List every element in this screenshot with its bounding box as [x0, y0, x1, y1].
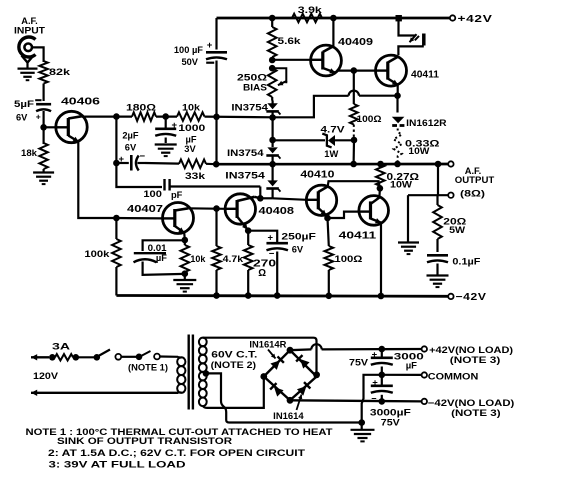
node 40411u emitter junction — [394, 92, 401, 99]
node 100k junction — [113, 215, 120, 222]
svg-text:+: + — [372, 349, 378, 360]
wire 40410 emitter to 40411 base — [328, 212, 360, 218]
terminal -42V no load — [422, 399, 427, 404]
wire emitter bus y96 — [273, 91, 398, 118]
node 40409 base junction — [269, 57, 276, 64]
svg-text:10W: 10W — [408, 146, 429, 156]
svg-text:33k: 33k — [185, 171, 206, 181]
svg-text:IN3754: IN3754 — [231, 102, 269, 112]
capacitor 2uF 6V — [116, 155, 145, 171]
switch contact — [115, 354, 121, 360]
label 0.01uF — [148, 243, 168, 263]
label IN3754 no2 — [227, 148, 265, 158]
resistor 20R 5W — [433, 195, 442, 252]
svg-text:40409: 40409 — [338, 37, 374, 48]
transistor Q8 40411 lower — [359, 196, 389, 226]
wire output bus — [216, 163, 450, 166]
svg-text:IN1614: IN1614 — [273, 411, 304, 421]
node fuse left — [49, 354, 56, 361]
label IN1612R — [406, 118, 447, 128]
wire collector node to 40410 base — [273, 198, 307, 200]
node rail 250uF — [274, 292, 281, 299]
transistor Q7 40410 — [306, 185, 336, 215]
node rail junction cutout — [396, 15, 402, 21]
svg-text:BIAS: BIAS — [243, 83, 267, 93]
switch lever — [98, 350, 111, 357]
svg-text:180Ω: 180Ω — [126, 103, 157, 113]
wire -42V rail — [116, 294, 448, 298]
resistor 270R — [244, 231, 253, 296]
capacitor C10 3000uF 75V lower — [371, 375, 393, 404]
resistor 100k — [112, 218, 121, 296]
svg-text:1000: 1000 — [178, 123, 205, 133]
node bus 0.33 junction — [394, 161, 401, 168]
svg-text:(NOTE 1): (NOTE 1) — [128, 362, 168, 372]
label 3.9k — [298, 5, 323, 15]
wire AC line2 — [31, 390, 178, 396]
capacitor 0.01uF loop — [134, 240, 185, 275]
label 60V CT — [211, 350, 257, 360]
node rail junction 3.9k — [330, 15, 337, 22]
label 0.1uF — [452, 257, 480, 267]
transistor Q5 40407 — [163, 203, 194, 234]
terminal +42V — [450, 15, 455, 20]
node 2uF junction — [113, 160, 120, 167]
label 120V — [33, 371, 59, 382]
transistor Q6 40408 — [225, 194, 255, 230]
svg-text:100: 100 — [143, 189, 162, 199]
diode bridge IN1614R top-left — [270, 356, 283, 369]
label 100R lower — [334, 254, 363, 264]
label 3000uF lower — [370, 407, 411, 418]
label -42V — [456, 292, 487, 303]
node zener right junction — [351, 137, 358, 144]
svg-text:60V C.T.: 60V C.T. — [211, 350, 257, 360]
svg-text:3V: 3V — [184, 144, 196, 154]
resistor 18k — [39, 143, 47, 169]
wire 33k to bus — [206, 163, 216, 166]
wire 18k top — [42, 127, 44, 144]
wire collector 40406 to 180R — [82, 115, 132, 117]
svg-text:4.7V: 4.7V — [321, 124, 346, 134]
wire output link — [437, 164, 439, 195]
wire base 40406 — [44, 126, 56, 128]
svg-text:82k: 82k — [49, 67, 71, 78]
label 18k — [21, 148, 38, 158]
capacitor 1000uF 3V — [155, 117, 177, 143]
svg-text:+: + — [172, 120, 178, 131]
wire x116 down — [115, 117, 117, 163]
connector J1 phono input jack — [19, 37, 36, 62]
resistor 180R — [132, 112, 156, 121]
resistor 82k — [39, 61, 47, 84]
resistor 0.33R 10W dotted — [394, 129, 402, 165]
ground below 10k — [173, 274, 196, 292]
ground below 18k — [33, 169, 54, 184]
terminal AF output return — [448, 193, 453, 198]
label 4.7V — [321, 124, 346, 134]
node bus diode junction — [269, 161, 276, 168]
label 3A — [52, 342, 70, 353]
label 75V upper — [349, 357, 369, 368]
wire 40407 collector to 40408 base — [188, 207, 225, 210]
label 100pF — [143, 189, 182, 200]
svg-text:µF: µF — [406, 360, 417, 371]
svg-text:+42V(NO LOAD): +42V(NO LOAD) — [429, 345, 513, 355]
wire 40409 collector up — [332, 18, 334, 46]
node bridge left — [260, 373, 267, 380]
ground speaker — [398, 243, 419, 255]
label IN1614R — [249, 339, 287, 349]
diode bridge bottom-left — [270, 383, 283, 396]
node bridge bottom — [287, 397, 294, 404]
diode bridge IN1614 bottom-right — [297, 382, 310, 395]
svg-text:+42V: +42V — [458, 14, 493, 25]
svg-text:100Ω: 100Ω — [334, 254, 363, 264]
svg-text:2: AT 1.5A D.C.; 62V C.T. FOR: 2: AT 1.5A D.C.; 62V C.T. FOR OPEN CIRCU… — [48, 448, 305, 458]
svg-text:+: + — [36, 112, 41, 122]
svg-text:(NOTE 3): (NOTE 3) — [451, 408, 501, 418]
node cap2 bottom — [379, 398, 386, 405]
note line 4 — [49, 459, 187, 469]
label 20R 5W — [443, 216, 467, 235]
svg-text:µF: µF — [156, 253, 167, 263]
ground power supply — [351, 423, 375, 442]
svg-text:(8Ω): (8Ω) — [460, 189, 485, 199]
label 250uF — [281, 231, 316, 254]
node feedback junction 1 — [113, 113, 120, 120]
resistor 100R upper — [350, 71, 358, 139]
wire common — [382, 374, 422, 376]
label 10W a — [408, 146, 429, 156]
wire 82k to C-5uF — [42, 84, 44, 102]
svg-text:18k: 18k — [21, 148, 38, 158]
node 4.7k top junction — [213, 205, 220, 212]
svg-text:IN1614R: IN1614R — [249, 339, 287, 349]
svg-text:100Ω: 100Ω — [357, 114, 383, 124]
node 0.01 top junction — [182, 237, 189, 244]
svg-text:5µF: 5µF — [14, 99, 34, 109]
label 5.6k — [278, 36, 302, 46]
node common junction — [379, 372, 386, 379]
label 1000uF — [178, 123, 205, 154]
label 40406 — [61, 97, 101, 108]
wire bridge minus — [290, 400, 422, 401]
svg-text:IN3754: IN3754 — [227, 148, 265, 158]
wire fuse to switch — [76, 356, 97, 358]
node cap1 top — [379, 346, 386, 353]
wire 40408 emitter to 250uF — [248, 231, 277, 242]
wire speaker ground — [407, 195, 409, 242]
wire x116 to 100pF — [116, 163, 162, 187]
transformer T1 primary coil — [177, 357, 185, 393]
node CT ground junction — [358, 419, 365, 426]
svg-text:IN1612R: IN1612R — [406, 118, 447, 128]
label COMMON — [428, 371, 479, 381]
diode IN1612R — [392, 96, 405, 126]
svg-text:+: + — [207, 40, 213, 51]
zener 4.7V 1W — [273, 134, 354, 148]
svg-text:40408: 40408 — [259, 206, 295, 217]
capacitor 100uF 50V — [206, 18, 227, 163]
node bus 0.27 junction — [377, 161, 384, 168]
capacitor 250uF 6V — [266, 233, 288, 296]
label 40407 — [127, 204, 163, 215]
wire output return — [408, 194, 448, 196]
node bus 100R junction — [350, 161, 357, 168]
svg-text:5.6k: 5.6k — [278, 36, 302, 46]
node rail 270R — [245, 292, 252, 299]
note line 2 — [57, 436, 232, 446]
node rail junction 5.6k — [269, 15, 276, 22]
wire 40407 base — [116, 217, 162, 220]
label -42V no load — [428, 398, 515, 408]
node cutout left — [136, 354, 143, 361]
svg-text:−: − — [269, 248, 275, 259]
svg-text:INPUT: INPUT — [14, 26, 45, 36]
label 270R — [253, 259, 276, 280]
svg-text:pF: pF — [171, 190, 183, 200]
label IN1614 — [273, 411, 304, 421]
label 10W b — [390, 179, 412, 189]
label 40411 lower — [339, 230, 377, 241]
svg-text:50V: 50V — [181, 57, 198, 67]
svg-text:2µF: 2µF — [122, 130, 139, 140]
resistor 10k vertical — [181, 240, 190, 272]
ground below 0.1uF — [427, 276, 449, 288]
arrow IN1614R — [268, 350, 276, 359]
note line 3 — [48, 448, 305, 458]
svg-text:250Ω: 250Ω — [237, 73, 268, 83]
wire switch to cutout — [121, 356, 136, 358]
wire secondary top to bridge — [203, 338, 317, 375]
label NOTE3 a — [450, 355, 501, 365]
svg-text:0.01: 0.01 — [148, 243, 167, 253]
node A.F. INPUT label — [14, 16, 45, 36]
label 10k horizontal — [182, 103, 201, 113]
svg-text:40406: 40406 — [61, 97, 101, 108]
node emitter-100R junction — [351, 67, 358, 74]
svg-text:IN3754: IN3754 — [225, 170, 266, 180]
svg-text:40411: 40411 — [411, 70, 440, 81]
node bus output-link junction — [435, 161, 442, 168]
wire 10k to bootstrap node — [205, 115, 273, 118]
resistor 10k horizontal — [177, 112, 205, 121]
svg-text:µF: µF — [186, 135, 197, 145]
svg-text:4.7k: 4.7k — [223, 254, 244, 264]
node rail 100R — [326, 293, 333, 300]
node bootstrap junction — [213, 114, 220, 121]
svg-text:3.9k: 3.9k — [298, 5, 323, 15]
svg-text:COMMON: COMMON — [428, 371, 479, 381]
node 40408 collector junction — [257, 195, 264, 202]
svg-text:5W: 5W — [449, 225, 465, 235]
arrow IN1614 — [297, 395, 303, 411]
label 100k — [84, 249, 110, 259]
svg-text:10k: 10k — [190, 254, 206, 264]
wire 40409 emitter to 40411 base — [337, 69, 376, 71]
terminal AF output hot — [448, 161, 453, 166]
wire AC line1 left — [31, 354, 49, 360]
resistor 4.7k — [212, 209, 221, 296]
svg-text:6V: 6V — [16, 113, 28, 123]
terminal -42V — [448, 294, 453, 299]
node bridge top — [287, 347, 294, 354]
svg-text:75V: 75V — [381, 417, 401, 428]
svg-text:40411: 40411 — [339, 230, 377, 241]
svg-text:40410: 40410 — [300, 170, 334, 181]
rectifier bridge wiring — [264, 350, 317, 400]
svg-text:OUTPUT: OUTPUT — [455, 175, 495, 185]
diode D2 IN3754 — [266, 140, 280, 164]
svg-text:−42V(NO LOAD): −42V(NO LOAD) — [428, 398, 515, 408]
label 82k — [49, 67, 71, 78]
label 75V lower — [381, 417, 401, 428]
svg-text:40407: 40407 — [127, 204, 163, 215]
wire 100R to bus — [353, 140, 356, 164]
thermal cutout switch — [398, 18, 423, 55]
transistor Q3 40409 — [311, 45, 342, 76]
transistor Q4 40411 upper — [375, 55, 406, 86]
node rail 4.7k — [213, 292, 220, 299]
wire 100pF down to collector node — [259, 187, 261, 199]
label +42V no load — [429, 345, 513, 355]
fuse 3A — [55, 354, 73, 360]
capacitor 5uF 6V — [14, 99, 51, 123]
node fuse right — [73, 354, 80, 361]
wire 180R to 10k — [156, 115, 177, 117]
wire jack to 82k — [32, 47, 44, 62]
svg-text:+: + — [268, 233, 274, 244]
wire 40406 emitter down — [78, 142, 116, 219]
label NOTE3 b — [451, 408, 501, 418]
wire bridge plus — [290, 344, 422, 350]
transformer T1 secondary coil — [199, 338, 207, 406]
wire 40410 collector to 40411 collector — [371, 188, 380, 204]
label 180R — [126, 103, 157, 113]
node 40408 emitter junction — [245, 227, 252, 234]
capacitor 100pF — [165, 179, 261, 191]
svg-text:10W: 10W — [390, 179, 412, 189]
svg-text:75V: 75V — [349, 357, 369, 368]
svg-text:120V: 120V — [33, 371, 59, 382]
potentiometer 250R BIAS — [268, 65, 287, 101]
node switch pivot — [94, 354, 101, 361]
wire 40408 collector — [255, 197, 261, 199]
wire 40407 emitter down — [183, 233, 186, 240]
label 100uF 50V — [174, 45, 203, 67]
svg-text:6V: 6V — [125, 142, 137, 152]
node 1000uF junction — [162, 113, 169, 120]
node base 40406 junction — [40, 124, 47, 131]
label 100R upper — [357, 114, 383, 124]
resistor 100R lower — [325, 218, 334, 296]
label 250R BIAS — [237, 73, 268, 93]
diode bridge top-right — [296, 355, 309, 368]
wire 40410 collector — [328, 181, 380, 188]
label IN3754 no1 — [231, 102, 269, 112]
resistor 0.27R 10W — [376, 164, 385, 188]
svg-text:A.F.: A.F. — [21, 16, 38, 26]
wire 40411u emitter down — [397, 85, 399, 96]
wire secondary bottom to bridge — [203, 377, 264, 408]
node secondary CT — [203, 370, 210, 377]
transformer T1 core — [189, 335, 193, 410]
node 0.01 bottom junction — [182, 270, 189, 277]
wire D3 to collector node — [260, 197, 272, 199]
capacitor 0.1uF — [427, 255, 448, 275]
label 33k — [185, 171, 206, 181]
node bus-bootstrap junction — [213, 161, 220, 168]
wire C-5uF to base node — [42, 111, 44, 128]
svg-text:(NOTE 2): (NOTE 2) — [211, 360, 257, 370]
svg-text:3: 39V AT FULL LOAD: 3: 39V AT FULL LOAD — [49, 459, 187, 469]
label +42V — [458, 14, 493, 25]
note line 1 — [26, 427, 333, 437]
node zener junction — [269, 137, 276, 144]
ground below 1000uF — [155, 145, 177, 157]
label 2uF — [119, 130, 146, 165]
label 1W — [324, 149, 338, 159]
terminal COMMON — [422, 372, 427, 377]
label 0.33R — [405, 138, 440, 148]
svg-text:250µF: 250µF — [281, 231, 316, 241]
svg-text:Ω: Ω — [258, 268, 266, 279]
svg-text:SINK OF OUTPUT TRANSISTOR: SINK OF OUTPUT TRANSISTOR — [57, 436, 232, 446]
svg-text:10k: 10k — [182, 103, 201, 113]
capacitor C9 3000uF 75V upper — [371, 349, 393, 375]
label 40411 upper — [411, 70, 440, 81]
node 40410 emitter junction — [324, 215, 331, 222]
node bridge right — [313, 371, 320, 378]
svg-text:1W: 1W — [324, 149, 338, 159]
thermal cutout contact — [154, 354, 160, 360]
label 0.27R — [387, 172, 420, 183]
svg-text:100k: 100k — [84, 249, 110, 259]
wire cutout to primary — [160, 355, 178, 357]
resistor 5.6k — [268, 18, 277, 60]
wire D1 to D2 — [272, 118, 274, 141]
resistor 33k — [145, 160, 206, 169]
wire 40411l emitter down — [380, 223, 382, 296]
node rail 40411 — [378, 293, 385, 300]
label NOTE1 ref — [128, 362, 168, 372]
wire common to ground — [362, 375, 382, 423]
svg-text:(NOTE 3): (NOTE 3) — [450, 355, 501, 365]
terminal +42V no load — [422, 346, 427, 351]
node 0.27 bottom junction — [377, 185, 384, 192]
ground below jack — [18, 62, 38, 80]
svg-text:0.1µF: 0.1µF — [452, 257, 480, 267]
label IN3754 no3 — [225, 170, 266, 180]
label AF OUTPUT — [455, 166, 495, 198]
thermal cutout contact lever — [141, 351, 151, 356]
svg-text:100 µF: 100 µF — [174, 45, 203, 55]
svg-text:3A: 3A — [52, 342, 70, 353]
label 40410 — [300, 170, 334, 181]
resistor 3.9k — [292, 14, 322, 23]
label 10k vertical — [190, 254, 206, 264]
svg-text:−42V: −42V — [456, 292, 487, 303]
wire top rail — [217, 17, 451, 20]
diode D3 IN3754 — [266, 164, 280, 198]
label 4.7k — [223, 254, 244, 264]
diode D1 IN3754 — [266, 101, 280, 118]
label NOTE2 ref — [211, 360, 257, 370]
svg-text:6V: 6V — [292, 244, 304, 254]
label 40408 — [259, 206, 295, 217]
label 3000uF upper — [394, 351, 424, 371]
